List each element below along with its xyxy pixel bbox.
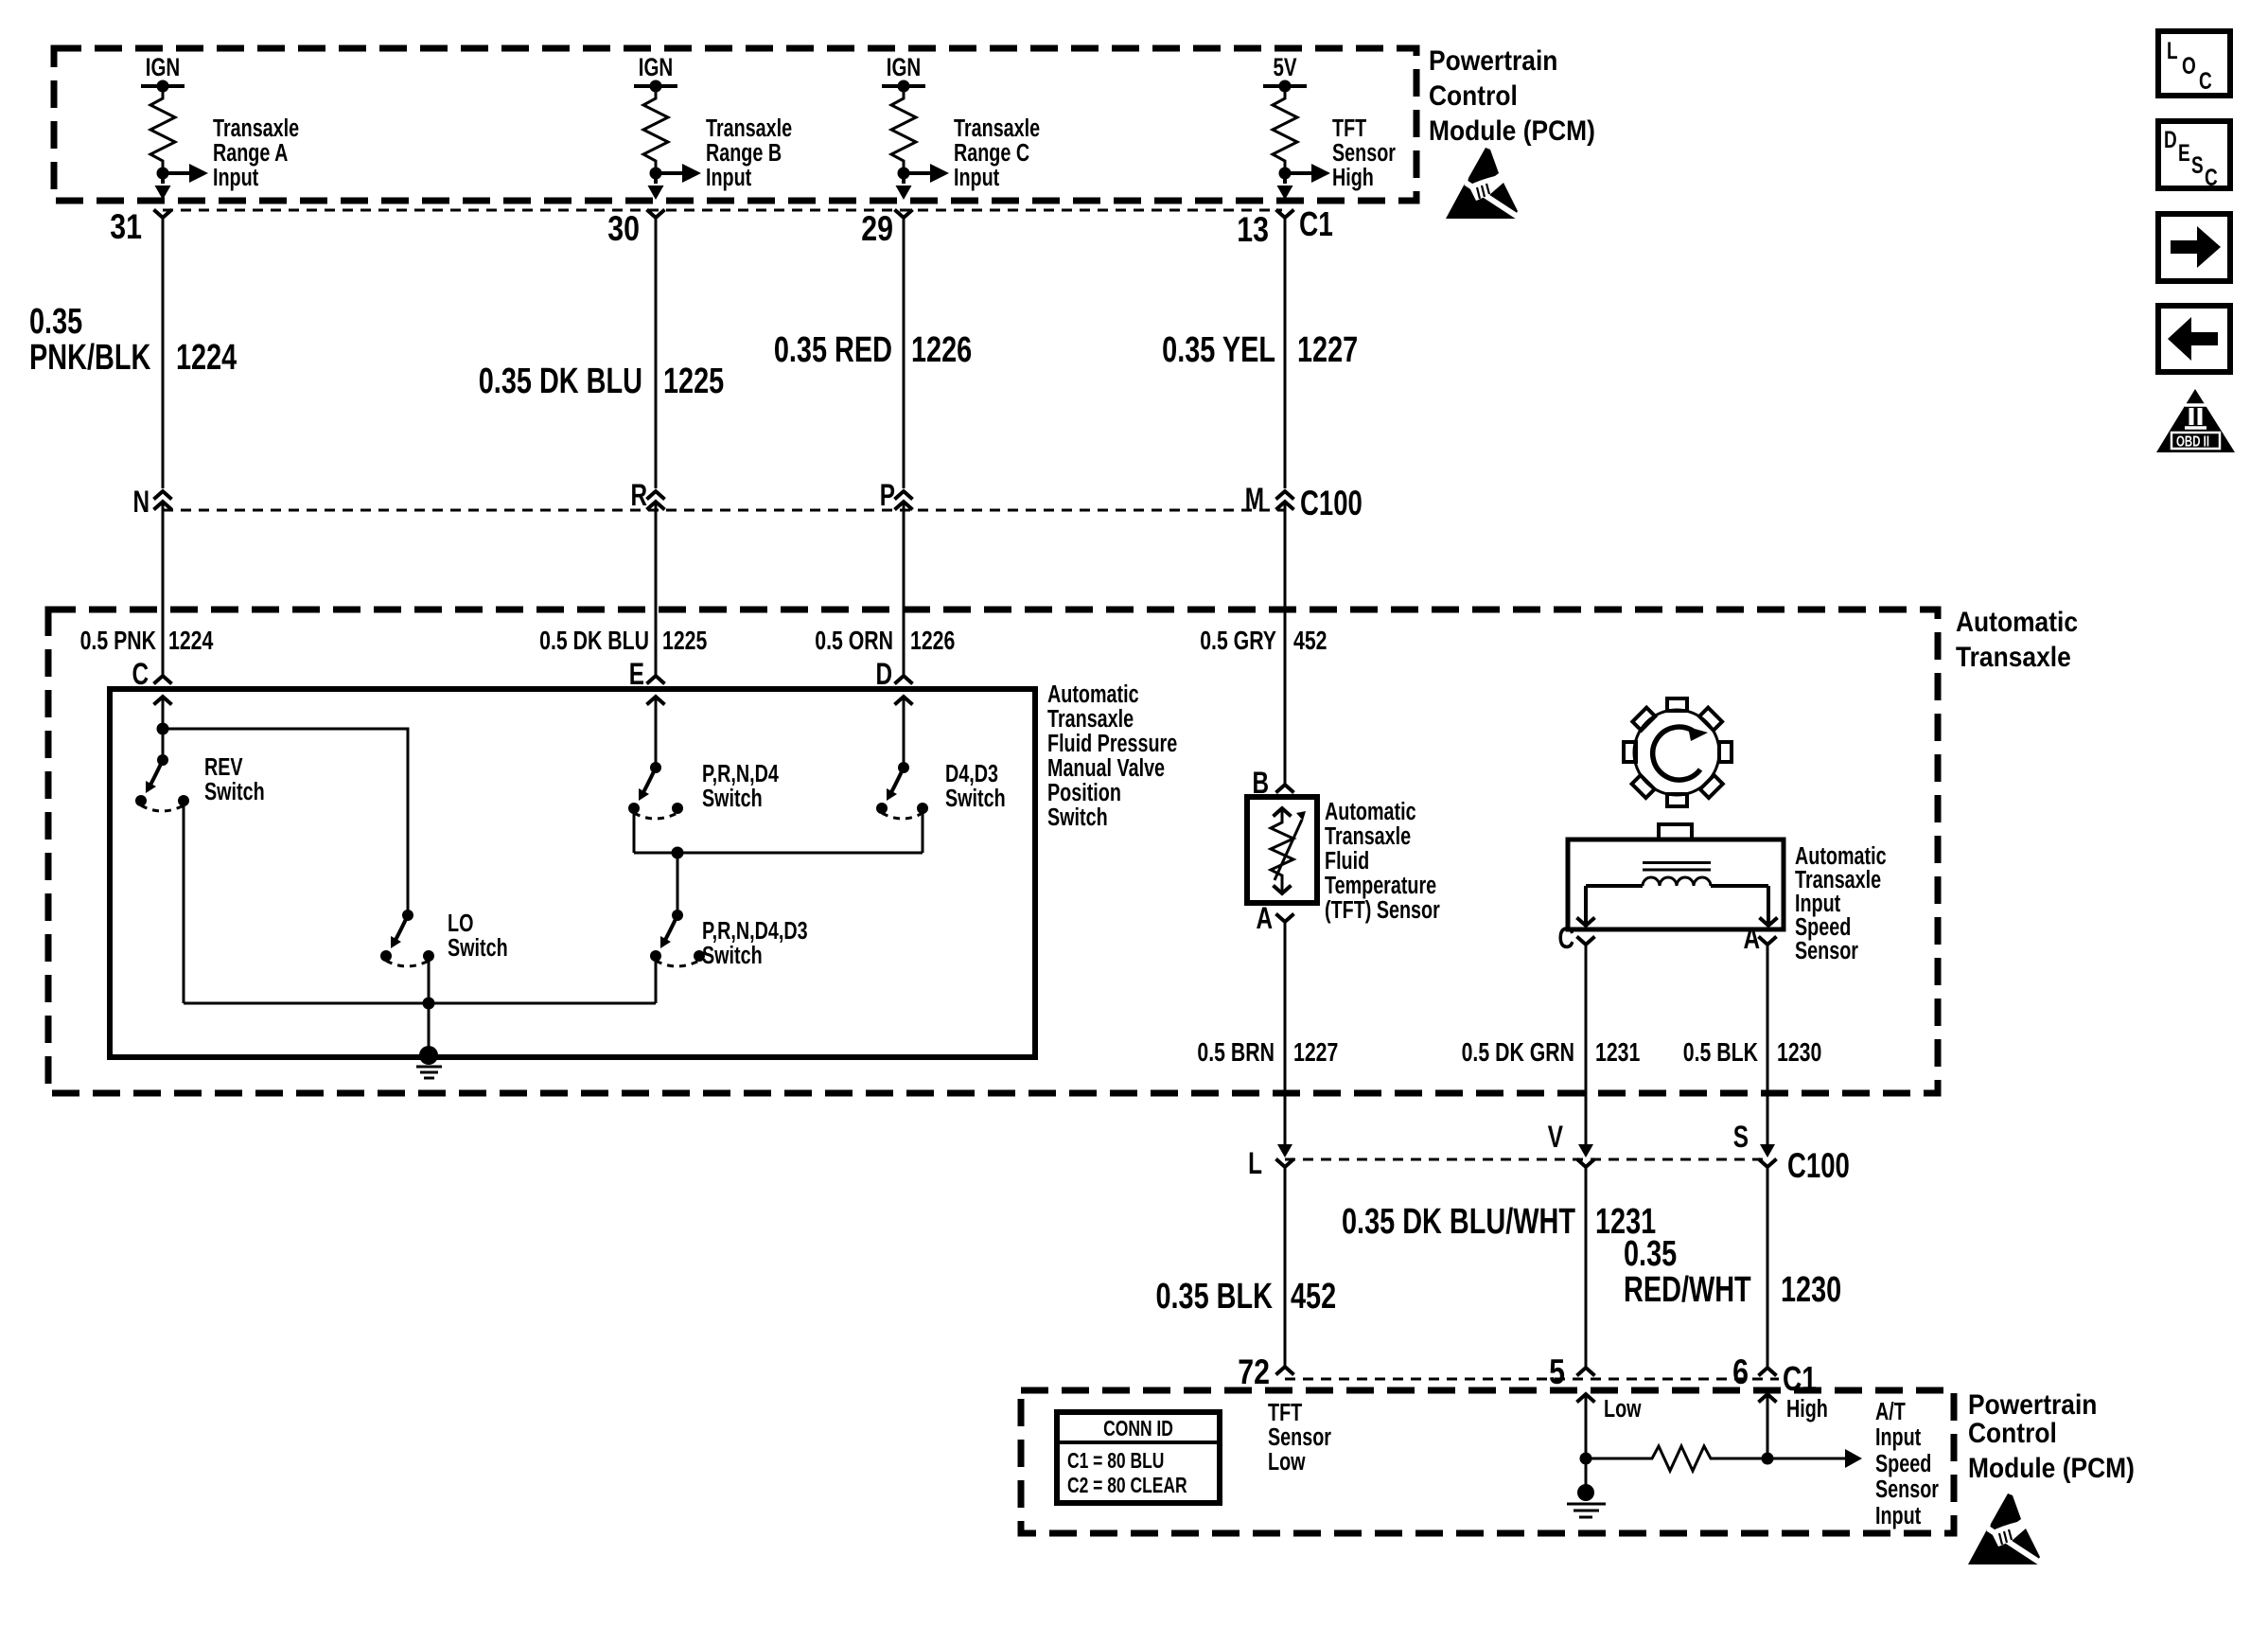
svg-text:1224: 1224 <box>168 626 213 656</box>
svg-text:Switch: Switch <box>448 933 508 961</box>
svg-text:Automatic: Automatic <box>1047 680 1139 707</box>
svg-text:A: A <box>1256 902 1273 936</box>
svg-text:1225: 1225 <box>662 626 707 656</box>
svg-text:Automatic: Automatic <box>1325 797 1416 824</box>
ground (switch common) <box>416 1046 442 1078</box>
svg-text:Fluid Pressure: Fluid Pressure <box>1047 729 1177 756</box>
pin 30 <box>607 209 664 249</box>
svg-text:Position: Position <box>1047 778 1121 805</box>
svg-text:Sensor: Sensor <box>1875 1475 1939 1502</box>
wire: REV right contact down to ground bus <box>183 801 185 1003</box>
svg-text:13: 13 <box>1237 210 1269 250</box>
wire: Low input with up arrow <box>1577 1394 1642 1458</box>
svg-text:0.5 PNK: 0.5 PNK <box>80 626 156 656</box>
svg-text:1227: 1227 <box>1297 329 1358 370</box>
pin P of C100 <box>880 479 913 513</box>
connector C1 row (PCM bottom): thin dashed line <box>1285 1378 1779 1381</box>
svg-text:Sensor: Sensor <box>1332 138 1396 166</box>
svg-text:Module (PCM): Module (PCM) <box>1968 1451 2135 1483</box>
wire: pin D into box with up arrow <box>895 697 913 768</box>
svg-text:LO: LO <box>448 909 473 936</box>
svg-text:0.35 RED: 0.35 RED <box>774 329 892 370</box>
label: REV Switch <box>204 752 265 804</box>
icon: LOC button <box>2158 31 2230 96</box>
label: TFT Sensor High <box>1332 114 1396 190</box>
label: Automatic Transaxle Fluid Pressure Manual Valve Position Switch <box>1047 680 1177 830</box>
svg-text:V: V <box>1548 1121 1563 1155</box>
svg-text:High: High <box>1332 163 1374 190</box>
pin 6 / connector C1 <box>1732 1352 1817 1398</box>
TFT sensor box <box>1247 797 1317 903</box>
label: Transaxle Range A Input <box>213 114 299 190</box>
svg-text:1225: 1225 <box>663 361 724 401</box>
switch D4,D3 <box>876 762 928 819</box>
svg-text:31: 31 <box>110 207 142 247</box>
label: 0.5 DK BLU 1225 <box>539 626 707 656</box>
wire: to A/T input speed sensor input (arrow) <box>1767 1449 1862 1468</box>
svg-text:Automatic: Automatic <box>1956 605 2078 637</box>
CONN ID table <box>1057 1412 1220 1503</box>
wire 1226: RED pin29 to C100-P <box>903 218 905 488</box>
wire: junction down to REV pivot <box>162 729 165 760</box>
svg-text:452: 452 <box>1291 1276 1336 1317</box>
wire 1224: PNK/BLK pin31 to C100-N <box>162 218 165 488</box>
svg-text:IGN: IGN <box>146 53 180 81</box>
svg-text:Temperature: Temperature <box>1325 871 1436 898</box>
svg-text:6: 6 <box>1732 1352 1749 1392</box>
svg-text:0.5 BLK: 0.5 BLK <box>1683 1037 1758 1068</box>
label: Powertrain Control Module (PCM) bottom <box>1968 1387 2135 1483</box>
svg-text:P: P <box>880 479 895 513</box>
wire 1230 BLK: sensor A to C100-S <box>1767 945 1769 1148</box>
svg-text:5V: 5V <box>1273 53 1296 81</box>
inductive pickup core + coil <box>1577 863 1778 927</box>
label: 0.35 RED/WHT 1230 <box>1624 1233 1841 1310</box>
label: LO Switch <box>448 909 508 961</box>
PCM module box (top, dashed) <box>54 48 1416 201</box>
svg-text:S: S <box>2191 151 2204 178</box>
pin N of C100 <box>132 486 171 520</box>
svg-text:0.35 BLK: 0.35 BLK <box>1155 1276 1273 1317</box>
connector C100 row 2: thin dashed line <box>1285 1158 1767 1161</box>
wire: junction down to P,R,N,D4,D3 pivot <box>677 853 679 915</box>
label: Automatic Transaxle (module) <box>1956 605 2078 672</box>
svg-text:1226: 1226 <box>910 626 955 656</box>
svg-text:1226: 1226 <box>911 329 972 370</box>
wire: middle bus 901 <box>634 852 923 855</box>
svg-text:Switch: Switch <box>702 784 763 811</box>
svg-text:Transaxle: Transaxle <box>1325 822 1411 849</box>
svg-text:Switch: Switch <box>945 784 1006 811</box>
label: 0.5 BLK 1230 <box>1683 1037 1822 1068</box>
svg-text:Input: Input <box>213 163 259 190</box>
svg-text:Fluid: Fluid <box>1325 846 1369 874</box>
resistor: Transaxle Range B pull-up to IGN <box>634 53 701 200</box>
label: 0.5 DK GRN 1231 <box>1462 1037 1641 1068</box>
PCM module box (bottom, dashed) <box>1021 1390 1954 1533</box>
gear (reluctor wheel) icon <box>1601 677 1753 829</box>
svg-text:M: M <box>1245 483 1264 517</box>
label: 0.35 BLK 452 <box>1155 1276 1336 1317</box>
svg-text:Transaxle: Transaxle <box>1956 640 2071 672</box>
svg-text:PNK/BLK: PNK/BLK <box>29 337 151 378</box>
label: TFT Sensor Low <box>1268 1398 1331 1475</box>
svg-text:TFT: TFT <box>1332 114 1366 141</box>
svg-text:0.5 BRN: 0.5 BRN <box>1197 1037 1275 1068</box>
label: 0.35 YEL 1227 <box>1162 329 1358 370</box>
pin M of C100 <box>1245 483 1363 522</box>
svg-text:C100: C100 <box>1300 483 1363 522</box>
pin 29 <box>861 209 912 249</box>
svg-text:D: D <box>2164 126 2177 152</box>
svg-text:0.5 DK BLU: 0.5 DK BLU <box>539 626 649 656</box>
speed sensor box <box>1568 824 1784 929</box>
resistor: TFT Sensor High pull-up to 5V <box>1263 53 1330 200</box>
svg-text:Switch: Switch <box>702 941 763 968</box>
node: ground bus junction <box>423 998 435 1010</box>
svg-text:Range B: Range B <box>706 138 782 166</box>
connector C100 row 1: thin dashed line <box>163 509 1285 512</box>
pin R of C100 <box>630 479 664 513</box>
resistor: Transaxle Range A pull-up to IGN <box>141 53 208 200</box>
svg-text:Input: Input <box>1875 1423 1922 1450</box>
svg-text:L: L <box>1248 1147 1262 1181</box>
resistor: Transaxle Range C pull-up to IGN <box>882 53 949 200</box>
Automatic Transaxle box (dashed) <box>48 610 1938 1093</box>
svg-text:Input: Input <box>954 163 1000 190</box>
svg-text:L: L <box>2167 37 2178 63</box>
svg-text:S: S <box>1733 1121 1749 1155</box>
svg-text:OBD II: OBD II <box>2176 433 2209 450</box>
svg-text:REV: REV <box>204 752 243 780</box>
manual valve position switch box (solid) <box>110 689 1035 1057</box>
svg-text:Powertrain: Powertrain <box>1968 1387 2097 1420</box>
svg-text:1231: 1231 <box>1595 1037 1640 1068</box>
svg-text:1224: 1224 <box>176 337 237 378</box>
svg-text:High: High <box>1786 1394 1828 1422</box>
pin L of C100 <box>1248 1144 1293 1181</box>
wire 1225 DK BLU: C100-R to transaxle pin E <box>655 502 658 676</box>
wire 1224 PNK: C100-N to transaxle pin C <box>162 502 165 676</box>
node: REV top junction <box>157 723 169 735</box>
svg-text:Module (PCM): Module (PCM) <box>1429 114 1595 146</box>
svg-text:C: C <box>2205 164 2218 190</box>
wire: ground bus 1060 <box>184 1002 656 1005</box>
pin D of switch <box>875 658 912 692</box>
pin 5 <box>1549 1352 1594 1392</box>
svg-text:Low: Low <box>1604 1394 1642 1422</box>
label: Automatic Transaxle Fluid Temperature (TFT) Sensor <box>1325 797 1440 923</box>
svg-text:Range A: Range A <box>213 138 289 166</box>
svg-text:IGN: IGN <box>887 53 921 81</box>
label: 0.35 RED 1226 <box>774 329 972 370</box>
svg-text:Switch: Switch <box>204 777 265 804</box>
pin A of TFT sensor <box>1256 902 1293 936</box>
svg-text:P,R,N,D4: P,R,N,D4 <box>702 759 779 786</box>
label: D4,D3 Switch <box>945 759 1006 811</box>
svg-text:0.35: 0.35 <box>29 301 82 342</box>
svg-text:0.35 DK BLU: 0.35 DK BLU <box>479 361 642 401</box>
svg-text:1227: 1227 <box>1293 1037 1338 1068</box>
label: 0.35 DK BLU/WHT 1231 <box>1342 1201 1656 1242</box>
svg-text:0.5 DK GRN: 0.5 DK GRN <box>1462 1037 1574 1068</box>
svg-text:O: O <box>2182 52 2196 79</box>
svg-text:P,R,N,D4,D3: P,R,N,D4,D3 <box>702 916 808 944</box>
svg-text:452: 452 <box>1293 626 1327 656</box>
pin 13 / connector C1 <box>1237 205 1333 250</box>
resistor: speed sensor input shunt <box>1586 1446 1767 1471</box>
svg-text:RED/WHT: RED/WHT <box>1624 1269 1751 1310</box>
svg-text:Switch: Switch <box>1047 803 1108 830</box>
label: 0.5 ORN 1226 <box>815 626 955 656</box>
wire 1225: DK BLU pin30 to C100-R <box>655 218 658 488</box>
wire: P,R,N,D4,D3 left contact down to ground bus <box>655 956 658 1003</box>
svg-text:C100: C100 <box>1787 1145 1850 1185</box>
svg-text:Manual Valve: Manual Valve <box>1047 753 1165 781</box>
wire: LO right contact down to ground bus <box>428 956 431 1003</box>
svg-text:TFT: TFT <box>1268 1398 1302 1425</box>
svg-text:Low: Low <box>1268 1447 1306 1475</box>
svg-text:Input: Input <box>706 163 752 190</box>
svg-text:0.35: 0.35 <box>1624 1233 1677 1274</box>
svg-text:Range C: Range C <box>954 138 1029 166</box>
label: 0.35 DK BLU 1225 <box>479 361 724 401</box>
icon: left arrow button <box>2158 306 2230 372</box>
label: Automatic Transaxle Input Speed Sensor <box>1795 841 1887 963</box>
thermistor symbol inside TFT sensor <box>1271 808 1306 893</box>
wire 452 GRY: C100-M to TFT sensor pin B <box>1284 502 1287 785</box>
svg-text:30: 30 <box>607 209 640 249</box>
svg-text:Powertrain: Powertrain <box>1429 44 1557 76</box>
pin B of TFT sensor <box>1252 767 1293 801</box>
label: Powertrain Control Module (PCM) top <box>1429 44 1595 146</box>
node: bus junction to P,R,N,D4,D3 pivot <box>672 847 684 859</box>
svg-text:IGN: IGN <box>639 53 673 81</box>
svg-text:A/T: A/T <box>1875 1397 1906 1424</box>
wire 1227 BRN: TFT-A down to C100-L <box>1284 922 1287 1148</box>
icon: DESC button <box>2158 121 2230 191</box>
ESD symbol (bottom PCM) <box>1968 1493 2040 1564</box>
svg-text:C2 = 80 CLEAR: C2 = 80 CLEAR <box>1067 1475 1187 1498</box>
icon: OBD II triangle <box>2156 389 2235 452</box>
svg-text:Control: Control <box>1429 79 1518 111</box>
wire 1227: YEL pin13 to C100-M <box>1284 218 1287 488</box>
svg-text:Transaxle: Transaxle <box>706 114 792 141</box>
svg-text:1230: 1230 <box>1777 1037 1821 1068</box>
switch LO <box>380 910 434 966</box>
pin C of switch <box>132 658 171 692</box>
pin A of speed sensor <box>1743 922 1776 956</box>
label: P,R,N,D4 Switch <box>702 759 779 811</box>
label: Transaxle Range B Input <box>706 114 792 190</box>
wire 452 BLK: C100-L to PCM pin 72 <box>1284 1167 1287 1367</box>
pin V of C100 <box>1548 1121 1595 1167</box>
switch REV <box>135 754 189 811</box>
svg-text:Sensor: Sensor <box>1795 936 1858 963</box>
svg-text:0.5 ORN: 0.5 ORN <box>815 626 893 656</box>
ESD symbol (top PCM) <box>1446 148 1518 219</box>
wire: pin C into box with up arrow <box>154 697 172 729</box>
svg-text:E: E <box>2178 139 2190 166</box>
icon: right arrow button <box>2158 214 2230 281</box>
pin E of switch <box>629 658 665 692</box>
label: P,R,N,D4,D3 Switch <box>702 916 808 968</box>
label: 0.5 PNK 1224 <box>80 626 214 656</box>
wire: D4,D3 right contact to bus 901 <box>922 808 924 853</box>
svg-text:Sensor: Sensor <box>1268 1423 1331 1450</box>
svg-text:72: 72 <box>1238 1352 1270 1392</box>
svg-text:1230: 1230 <box>1781 1269 1841 1310</box>
wire: High input with up arrow <box>1759 1394 1828 1458</box>
svg-text:Transaxle: Transaxle <box>954 114 1040 141</box>
svg-text:N: N <box>132 486 149 520</box>
svg-text:0.35 YEL: 0.35 YEL <box>1162 329 1275 370</box>
wire 1230 RED/WHT: C100-S to PCM pin 6 <box>1767 1167 1769 1368</box>
wire 1226 ORN: C100-P to transaxle pin D <box>903 502 905 676</box>
svg-text:Control: Control <box>1968 1416 2057 1448</box>
label: A/T Input Speed Sensor Input <box>1875 1397 1939 1529</box>
svg-text:0.35 DK BLU/WHT: 0.35 DK BLU/WHT <box>1342 1201 1575 1242</box>
label: 0.5 BRN 1227 <box>1197 1037 1338 1068</box>
wire 1231 DK BLU/WHT: C100-V to PCM pin 5 <box>1585 1167 1588 1368</box>
svg-text:Input: Input <box>1875 1501 1922 1529</box>
svg-text:5: 5 <box>1549 1352 1565 1392</box>
svg-text:(TFT) Sensor: (TFT) Sensor <box>1325 895 1440 923</box>
svg-text:C: C <box>2199 67 2212 94</box>
label: Transaxle Range C Input <box>954 114 1040 190</box>
svg-text:R: R <box>630 479 647 513</box>
svg-text:A: A <box>1743 922 1760 956</box>
node: High junction <box>1762 1453 1774 1465</box>
svg-text:0.5 GRY: 0.5 GRY <box>1200 626 1276 656</box>
svg-text:D4,D3: D4,D3 <box>945 759 998 786</box>
wire 1231 DK GRN: sensor C to C100-V <box>1585 945 1588 1148</box>
pin C of speed sensor <box>1557 922 1594 956</box>
svg-text:29: 29 <box>861 209 893 249</box>
wire: P,R,N,D4 left contact to bus 901 <box>633 808 636 853</box>
ground (PCM internal) <box>1567 1458 1606 1517</box>
wire: ground stem <box>428 1003 431 1051</box>
node: Low junction <box>1580 1453 1592 1465</box>
svg-text:Transaxle: Transaxle <box>1047 704 1134 732</box>
pin S of C100 <box>1733 1121 1850 1185</box>
connector C1 row (PCM top): thin dashed line <box>163 209 1282 212</box>
svg-text:Speed: Speed <box>1875 1449 1931 1476</box>
switch P,R,N,D4 <box>628 762 683 819</box>
svg-text:C: C <box>1557 922 1574 956</box>
svg-text:CONN ID: CONN ID <box>1103 1418 1173 1441</box>
wire: junction to LO switch feed (top horizontal) <box>163 729 408 915</box>
switch P,R,N,D4,D3 <box>650 910 705 966</box>
label: 0.35 PNK/BLK 1224 <box>29 301 237 378</box>
pin 72 <box>1238 1352 1293 1392</box>
label: 0.5 GRY 452 <box>1200 626 1327 656</box>
pin 31 <box>110 207 171 247</box>
svg-text:C1 = 80 BLU: C1 = 80 BLU <box>1067 1450 1164 1474</box>
wire: pin E into box with up arrow <box>647 697 665 768</box>
svg-text:Transaxle: Transaxle <box>213 114 299 141</box>
svg-text:C1: C1 <box>1299 205 1333 243</box>
